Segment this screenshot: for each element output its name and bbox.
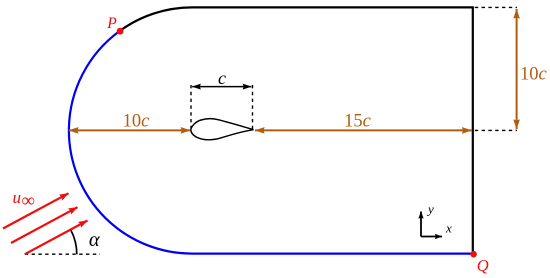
svg-text:u∞: u∞ [13,188,36,212]
airfoil profile [191,119,254,140]
point P [117,28,124,35]
svg-text:10c: 10c [123,111,151,131]
svg-text:x: x [445,221,452,236]
chord dimension arrow c [192,86,251,88]
dashed reference line for angle of attack [25,253,100,255]
coordinate axes: y axis [420,212,422,237]
svg-text:P: P [106,15,117,32]
inflow arrow middle [11,207,78,243]
svg-text:c: c [218,68,226,88]
dashed extension line at leading edge [190,85,192,129]
svg-text:α: α [89,229,101,251]
svg-text:Q: Q [477,256,489,275]
inflow arrow bottom [25,221,88,255]
outer boundary (black): arc from P to top, top line, right outlet line [120,7,473,253]
svg-text:15c: 15c [344,111,372,131]
angle arc alpha [71,230,77,255]
dashed leader mid right [475,129,517,131]
svg-text:y: y [426,201,434,216]
dimension arrow 10c (vertical, brown) [516,9,518,129]
dashed extension line at trailing edge [252,85,254,130]
inflow arrow top [3,193,69,228]
far-field inlet arc (blue): from P around left and bottom, then bottom outlet line to Q [69,31,473,254]
coordinate axes: x axis [421,236,442,238]
dimension arrow 10c (left, brown) [69,129,191,131]
svg-text:10c: 10c [520,65,548,85]
dashed leader top right [475,6,517,8]
dimension arrow 15c (brown) [255,129,472,131]
point Q [470,251,477,258]
